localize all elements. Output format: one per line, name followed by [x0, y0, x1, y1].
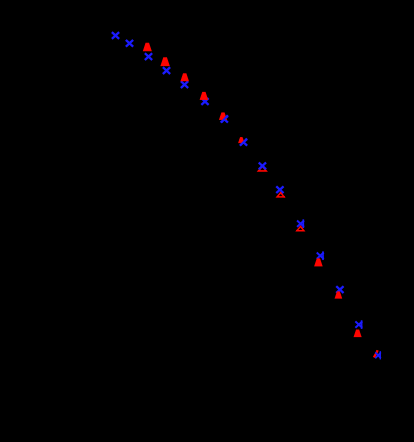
atom N8	[241, 140, 247, 145]
atom O14	[354, 330, 361, 337]
atom N3	[146, 54, 152, 59]
atom O11	[296, 226, 304, 230]
atom N10	[277, 187, 283, 192]
atom O12	[315, 259, 323, 266]
atom O5	[181, 74, 189, 81]
atom O6	[200, 92, 208, 99]
atom N13	[337, 287, 343, 292]
atom N5	[182, 82, 188, 87]
atom N7 crossing arm	[222, 116, 227, 122]
atom N6	[202, 99, 208, 104]
atom N4	[164, 68, 170, 73]
atom O10	[277, 193, 285, 197]
atom N7	[222, 117, 228, 122]
atom O9	[258, 166, 266, 171]
atom N1	[113, 33, 119, 38]
atom O7	[219, 113, 226, 120]
atom N12	[318, 252, 324, 259]
atom O15	[374, 351, 378, 357]
atom N11	[298, 220, 304, 227]
atom N2	[127, 41, 133, 46]
atom N9	[260, 163, 266, 168]
atom O8	[238, 137, 244, 143]
atom O13	[335, 292, 342, 299]
atom O3	[143, 43, 151, 51]
atom N8 crossing arm	[241, 139, 246, 145]
atom N14	[356, 321, 362, 328]
atom O4	[161, 58, 170, 66]
atom N15	[376, 352, 380, 359]
